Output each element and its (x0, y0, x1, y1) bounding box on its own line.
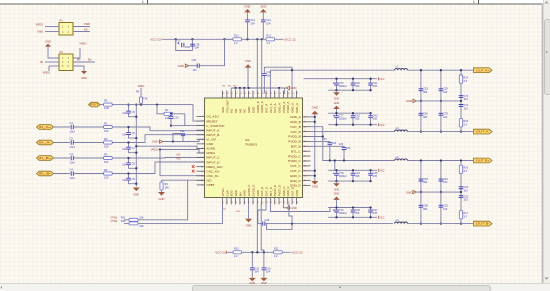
svg-text:103: 103 (443, 207, 448, 211)
resistor R3 (104, 156, 113, 159)
svg-text:IN_A-: IN_A- (39, 141, 52, 145)
capacitor C32 (459, 196, 464, 198)
IC1 right pins (303, 116, 311, 118)
svg-text:1: 1 (223, 202, 225, 204)
filter rail caps C33 (420, 70, 422, 131)
wire VDD node left (256, 204, 258, 253)
svg-text:30: 30 (222, 93, 225, 95)
svg-text:104: 104 (122, 133, 127, 136)
svg-text:L4: L4 (396, 218, 399, 222)
ground GND (C16) (260, 278, 267, 281)
svg-text:AGND: AGND (206, 147, 216, 151)
capacitor C47 (370, 208, 372, 210)
svg-text:2.2: 2.2 (274, 255, 278, 258)
svg-text:31: 31 (226, 93, 229, 95)
svg-text:M1: M1 (223, 86, 227, 88)
VCC group G4 top rail (328, 207, 370, 209)
wire P1 pin3 (45, 31, 59, 33)
svg-text:C7: C7 (132, 146, 136, 150)
resistor R14 (460, 70, 462, 131)
capacitor C13 (247, 12, 249, 19)
svg-text:OUT_C: OUT_C (290, 169, 301, 173)
wire OUT_A riser 2 (291, 70, 293, 93)
svg-text:10K: 10K (165, 186, 170, 189)
svg-text:NC: NC (84, 28, 88, 32)
svg-text:C5: C5 (132, 110, 136, 114)
svg-text:GND: GND (133, 193, 139, 197)
svg-text:R11: R11 (274, 248, 279, 251)
capacitor C41 (370, 79, 372, 83)
svg-text:OC_ADJ: OC_ADJ (206, 115, 219, 119)
capacitor C19 branch (199, 39, 224, 65)
svg-text:PVDD_B: PVDD_B (288, 140, 300, 144)
svg-text:47K: 47K (143, 96, 148, 100)
power port GND (top right of IC) (285, 87, 287, 89)
wire OUT_A to L1 (270, 69, 394, 71)
svg-text:GND: GND (178, 64, 184, 68)
filter rail caps C39 (420, 161, 422, 224)
svg-text:C19: C19 (192, 59, 197, 62)
svg-text:GND: GND (290, 86, 296, 90)
capacitor C40 (352, 79, 354, 83)
svg-text:104: 104 (122, 164, 127, 167)
svg-text:10uf: 10uf (70, 176, 75, 180)
svg-text:C28: C28 (265, 218, 270, 222)
svg-text:R1: R1 (104, 121, 108, 125)
svg-text:PVDD_C: PVDD_C (288, 159, 301, 163)
VCC group G2 top rail (328, 112, 370, 114)
svg-text:C6: C6 (132, 131, 136, 135)
svg-text:C_STARTUP: C_STARTUP (206, 124, 224, 128)
svg-text:GND_D: GND_D (290, 179, 302, 183)
svg-text:2.2: 2.2 (267, 42, 271, 45)
svg-text:VREG: VREG (43, 71, 50, 75)
svg-text:RST: RST (90, 103, 99, 107)
svg-text:R12: R12 (267, 35, 272, 38)
resistor R17 (459, 211, 462, 220)
wire L1 to OUT A+ (407, 69, 473, 71)
svg-text:103: 103 (346, 146, 351, 150)
svg-text:10R: 10R (104, 106, 109, 110)
svg-text:103: 103 (463, 97, 468, 101)
svg-text:P1: P1 (60, 19, 64, 23)
ground GND (input bus) (133, 188, 140, 192)
capacitor C14 (262, 12, 264, 19)
ground GND between G1 G2 (336, 90, 338, 92)
svg-text:VCC-C5: VCC-C5 (215, 250, 226, 254)
VCC group G3 bottom rail (328, 180, 370, 182)
svg-text:OSC_IO-: OSC_IO- (206, 174, 219, 178)
capacitor C34 (459, 187, 464, 189)
capacitor C10 (263, 76, 265, 94)
svg-text:R16: R16 (463, 166, 468, 170)
sheet right border (541, 4, 543, 283)
wire C3 to R3 (73, 157, 103, 159)
svg-text:OUT A-: OUT A- (476, 130, 490, 134)
svg-text:GND: GND (290, 206, 296, 210)
port IN_B- (37, 171, 54, 176)
svg-text:1000uf: 1000uf (339, 84, 347, 88)
port OUT A+ (474, 68, 493, 73)
svg-text:10uf: 10uf (185, 45, 190, 49)
svg-text:VREG: VREG (138, 85, 145, 88)
svg-text:OUT_B: OUT_B (290, 125, 300, 129)
svg-text:104: 104 (193, 69, 198, 72)
svg-text:GND: GND (312, 185, 318, 189)
resistor R12 (266, 38, 275, 41)
VCC group G2 bottom rail (328, 124, 377, 126)
svg-text:OUT_B: OUT_B (290, 130, 300, 134)
svg-text:C8: C8 (132, 161, 136, 165)
resistor R11 (274, 251, 283, 254)
wire OUT_A riser 1 (269, 70, 271, 93)
svg-text:OUT A+: OUT A+ (476, 68, 491, 72)
svg-text:PVDD_C: PVDD_C (288, 154, 301, 158)
svg-text:GND: GND (312, 106, 318, 110)
ground bus (input section) (135, 105, 137, 187)
svg-text:C10: C10 (267, 70, 272, 74)
svg-text:104: 104 (122, 179, 127, 182)
svg-text:GND: GND (334, 193, 340, 196)
filter rail caps C40 (440, 161, 442, 224)
svg-text:[VCC-12: [VCC-12 (292, 250, 303, 254)
svg-text:GND: GND (159, 197, 165, 201)
inductor L4 (395, 222, 408, 224)
svg-text:3: 3 (231, 202, 233, 204)
VCC group G1 bottom rail (328, 89, 370, 91)
svg-text:104: 104 (195, 46, 200, 50)
svg-text:M3: M3 (88, 59, 92, 62)
capacitor C6 (128, 127, 130, 132)
wire P1 pin4 (73, 31, 90, 33)
svg-text:R15: R15 (463, 119, 468, 123)
svg-text:OUT B-: OUT B- (476, 222, 490, 226)
filter rail caps C35 (440, 70, 442, 131)
capacitor C4 (71, 171, 73, 176)
svg-text:INPUT_A: INPUT_A (206, 128, 220, 132)
svg-text:684: 684 (423, 207, 428, 211)
port OUT A- (474, 129, 493, 134)
svg-text:R21: R21 (121, 215, 126, 219)
svg-text:100: 100 (104, 129, 109, 133)
capacitor C16 (263, 252, 265, 267)
svg-text:IN_B-: IN_B- (39, 172, 52, 176)
svg-text:37: 37 (252, 93, 255, 95)
capacitor C5 (128, 105, 130, 111)
svg-text:103: 103 (443, 180, 448, 184)
wire OTW1 (138, 180, 188, 220)
wire to R7 (157, 105, 164, 114)
wire between R13 and R12 (242, 38, 266, 40)
svg-text:VREG: VREG (79, 41, 86, 45)
port OUT B+ (474, 158, 493, 163)
svg-text:C29: C29 (339, 144, 344, 146)
svg-text:33: 33 (223, 208, 226, 210)
capacitor C3 (71, 156, 73, 161)
connector P1 (59, 23, 73, 36)
wire IN_A+ to C1 (54, 126, 71, 128)
svg-text:OUT_C: OUT_C (290, 164, 301, 168)
svg-text:10uf: 10uf (70, 145, 75, 149)
svg-text:VCC: VCC (379, 215, 385, 219)
svg-text:GND_A: GND_A (295, 103, 299, 113)
capacitor C78 (336, 170, 338, 173)
resistor R1 (104, 125, 113, 128)
capacitor C26 bootstrap (311, 141, 330, 142)
wire OUT_A- to L3 (311, 131, 395, 133)
wire P2 pin3 (45, 61, 59, 63)
wire RST to IC /RESET (112, 105, 204, 122)
capacitor C18 (190, 44, 195, 46)
wire L3 to OUT A- (407, 131, 473, 133)
port IN_A- (37, 140, 54, 145)
wire P2 pin5 (48, 66, 50, 70)
svg-text:10K: 10K (139, 215, 144, 219)
svg-text:INPUT_B: INPUT_B (206, 133, 219, 137)
no-connect marks (192, 165, 195, 168)
wire GND to VI_CM pin (163, 139, 205, 141)
svg-text:8: 8 (253, 202, 255, 204)
svg-text:45: 45 (287, 93, 290, 95)
svg-text:000: 000 (236, 211, 240, 213)
svg-text:GND: GND (246, 224, 252, 228)
svg-text:M2: M2 (228, 86, 232, 88)
capacitor C43 (370, 113, 372, 115)
wire GND umbrella to pin (247, 68, 249, 88)
svg-text:VCC: VCC (379, 77, 385, 81)
svg-text:GND_C: GND_C (290, 174, 302, 178)
connector P2 (59, 54, 73, 71)
svg-text:GND: GND (334, 189, 340, 192)
svg-text:VCC: VCC (379, 123, 385, 127)
net label VCC-12 (bottom) (282, 251, 290, 253)
wire IN_B+ to IC INPUT_C (112, 157, 204, 160)
svg-text:104: 104 (266, 270, 271, 274)
op-amp IC1 TAS5631 body (205, 98, 303, 198)
svg-text:GND_B: GND_B (290, 120, 301, 124)
VCC group G4 bottom rail (328, 216, 377, 218)
port RST (89, 102, 101, 107)
svg-text:TAS5631: TAS5631 (245, 142, 258, 146)
svg-text:IND: IND (177, 159, 181, 161)
svg-text:C9: C9 (132, 177, 136, 181)
wire VDD feed to IC top (256, 39, 258, 93)
svg-text:BTL_C: BTL_C (291, 149, 301, 153)
svg-text:104: 104 (122, 148, 127, 151)
svg-text:14: 14 (279, 202, 282, 204)
svg-text:103: 103 (463, 106, 468, 110)
svg-text:VREG: VREG (36, 23, 43, 27)
wire C4 to R4 (73, 173, 103, 175)
svg-text:C16: C16 (266, 266, 271, 270)
net label VCC-12 (top) (275, 38, 284, 40)
svg-text:L2: L2 (396, 155, 399, 159)
capacitor C73 (459, 96, 464, 98)
svg-text:R14: R14 (463, 75, 468, 79)
svg-text:BST_B: BST_B (291, 145, 301, 149)
svg-text:13: 13 (274, 202, 277, 204)
svg-text:GND: GND (45, 40, 51, 44)
svg-text:103: 103 (443, 90, 448, 94)
svg-text:L3: L3 (396, 126, 399, 130)
wire P2 pin6 (73, 66, 84, 71)
wire L4 to OUT B- (407, 223, 473, 225)
svg-text:105: 105 (373, 117, 378, 121)
svg-text:VCC: VCC (379, 168, 385, 172)
wire PVDD_C feed to G3 (334, 161, 336, 171)
capacitor C1 (71, 125, 73, 130)
capacitor C46 (352, 208, 354, 210)
ground GND below P2 (81, 71, 87, 74)
svg-text:IN_A+: IN_A+ (39, 125, 53, 129)
capacitor C2 (71, 140, 73, 145)
svg-text:IN_B+: IN_B+ (39, 156, 53, 160)
svg-text:[VCC-12: [VCC-12 (285, 37, 296, 41)
svg-text:/RESET: /RESET (206, 119, 217, 123)
wire VDD node right (261, 204, 264, 253)
svg-text:1000uf: 1000uf (339, 174, 347, 178)
svg-text:GND_A: GND_A (290, 115, 302, 119)
svg-text:GND: GND (261, 282, 267, 285)
resistor R4 (104, 172, 113, 175)
svg-text:2.2: 2.2 (234, 255, 238, 258)
svg-text:PWD: PWD (84, 22, 90, 26)
wire VREG to pin (159, 150, 205, 153)
capacitor C76 (336, 79, 338, 83)
svg-text:VCC-C5: VCC-C5 (150, 37, 161, 41)
svg-text:40: 40 (265, 93, 268, 95)
wire P2 pin4 (73, 61, 95, 63)
wire R10 to node (242, 251, 274, 253)
svg-text:C4: C4 (70, 167, 74, 171)
svg-text:R6: R6 (136, 90, 140, 93)
svg-text:18: 18 (296, 202, 299, 204)
svg-text:OPBT: OPBT (206, 183, 215, 187)
svg-text:R3: R3 (104, 152, 108, 156)
wire P1 pin1 (45, 26, 59, 28)
svg-text:FREQ_ADJ: FREQ_ADJ (206, 165, 223, 169)
inductor L2 (395, 159, 408, 161)
svg-text:105: 105 (355, 174, 360, 178)
capacitor C28 (258, 204, 266, 224)
svg-text:R13: R13 (234, 35, 239, 38)
svg-text:103: 103 (463, 197, 468, 201)
wire gnd bus above IC top pins (231, 87, 284, 89)
svg-text:INPUT_C: INPUT_C (206, 156, 220, 160)
wire IN_A+ to IC INPUT_A (112, 127, 204, 131)
wire IN_A- to C2 (54, 142, 71, 144)
svg-text:GND: GND (406, 190, 412, 194)
svg-text:R5: R5 (104, 99, 108, 103)
VCC group G1 top rail (304, 78, 378, 80)
svg-text:R17: R17 (463, 211, 468, 215)
svg-text:R2: R2 (104, 137, 108, 141)
resistor R5 (100, 104, 104, 106)
capacitor C7 (128, 143, 130, 148)
VCC group G3 top rail (328, 169, 377, 171)
IC1 top pins (222, 91, 224, 99)
port OUT B- (474, 221, 493, 226)
scrollbar grip marks (339, 287, 341, 289)
svg-text:GND: GND (260, 4, 266, 8)
svg-text:M3: M3 (234, 86, 238, 88)
svg-text:GND: GND (295, 190, 299, 196)
svg-text:L1: L1 (396, 65, 399, 69)
svg-text:R4: R4 (104, 168, 108, 172)
svg-text:105: 105 (355, 84, 360, 88)
svg-text:103: 103 (463, 188, 468, 192)
port IN_B+ (37, 156, 54, 161)
wire IN_A- to IC INPUT_B (112, 135, 204, 143)
capacitor C45 (370, 170, 372, 173)
svg-text:GND: GND (37, 30, 43, 34)
wire IN_B+ to C3 (54, 157, 71, 159)
svg-text:C30: C30 (174, 115, 179, 119)
wire AGND (136, 146, 204, 148)
svg-text:C1: C1 (70, 121, 74, 125)
svg-text:OTW1: OTW1 (111, 217, 118, 219)
svg-text:3.3: 3.3 (463, 123, 467, 127)
wire to G4 rail (270, 204, 333, 212)
wire R7 to C_STARTUP (173, 114, 205, 126)
svg-text:2: 2 (227, 202, 229, 204)
wire C2 to R2 (73, 142, 103, 144)
wire IN_B- to C4 (54, 173, 71, 175)
resistor R10 (227, 251, 233, 253)
capacitor C30 (170, 113, 172, 115)
sheet top border (0, 3, 543, 5)
wire P1 pin2 (73, 26, 90, 28)
capacitor C8 (128, 158, 130, 163)
capacitor C42 (352, 113, 354, 115)
capacitor C17 (176, 39, 193, 50)
svg-text:M2: M2 (77, 59, 81, 62)
svg-text:GND: GND (334, 98, 340, 101)
wire OTW2 to IC pin (138, 204, 223, 224)
svg-text:1000uf: 1000uf (339, 117, 347, 121)
svg-text:GND: GND (245, 59, 251, 63)
svg-text:OTW2: OTW2 (111, 221, 118, 223)
svg-text:GND: GND (81, 76, 87, 80)
svg-text:GND: GND (245, 4, 251, 8)
svg-text:103: 103 (332, 141, 337, 145)
capacitor C79 (336, 208, 338, 210)
svg-text:R7: R7 (165, 108, 169, 112)
IC1 bottom pins (222, 198, 224, 205)
svg-text:OUT B+: OUT B+ (476, 159, 491, 163)
capacitor C77 (336, 113, 338, 115)
svg-text:3.3: 3.3 (463, 79, 467, 83)
capacitor C44 (352, 170, 354, 173)
svg-text:GND: GND (250, 282, 256, 285)
svg-text:C3: C3 (70, 152, 74, 156)
svg-text:105: 105 (355, 211, 360, 215)
svg-text:C14: C14 (266, 18, 271, 22)
resistor R15 (459, 119, 462, 128)
gnd bus at IC right (314, 114, 316, 181)
capacitor C29 bootstrap (311, 146, 345, 147)
svg-text:104: 104 (254, 270, 259, 274)
wire P2 pin2 (73, 48, 80, 58)
svg-text:1000uf: 1000uf (339, 211, 347, 215)
wire FREQ/OSC vertical (160, 150, 205, 176)
IC1 left pins (197, 116, 205, 118)
svg-text:C26: C26 (322, 139, 327, 141)
capacitor C11 (173, 134, 181, 142)
svg-text:105: 105 (355, 117, 360, 121)
svg-text:GND: GND (152, 140, 158, 144)
resistor R6 pull-up (140, 88, 142, 97)
